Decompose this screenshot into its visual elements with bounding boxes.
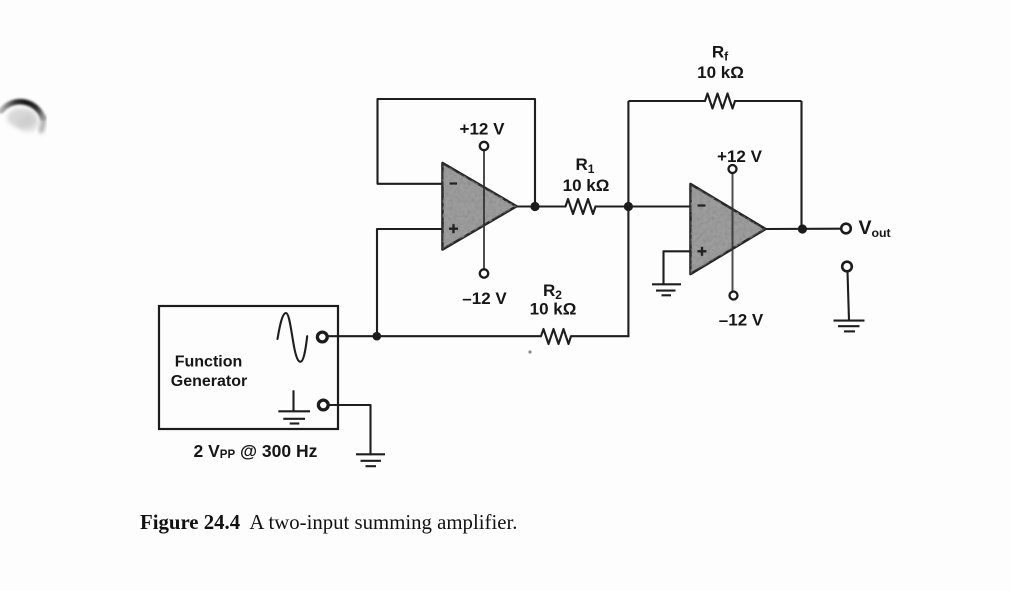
terminal +12 V (U1) (480, 142, 488, 150)
ground (below Vout) (834, 321, 865, 332)
svg-text:Rf: Rf (712, 43, 729, 64)
wire (U1 power rail vertical) (483, 151, 485, 269)
function generator label (171, 354, 247, 391)
node (junction at function generator output) (373, 332, 382, 341)
terminal (function generator ground) (318, 400, 328, 410)
wire (junction up to op-amp U1 + input) (377, 229, 443, 336)
wire (terminal to ground) (848, 272, 850, 321)
terminal Vout (841, 224, 851, 234)
terminal -12 V (U1) (480, 269, 488, 277)
svg-text:+12 V: +12 V (717, 147, 763, 166)
svg-text:R1: R1 (576, 155, 595, 176)
function generator box (159, 306, 338, 429)
pin + (U1 non-inverting input) (449, 224, 458, 233)
resistor R1 (566, 199, 596, 214)
node (U2 output junction) (798, 224, 807, 233)
wire (function generator ground terminal to earth) (329, 405, 371, 454)
svg-text:Vout: Vout (859, 217, 891, 240)
op-amp U2 (691, 184, 766, 274)
terminal +12 V (U2) (729, 165, 737, 173)
ground (inside function generator) (278, 390, 310, 423)
wire (U2 output to Vout terminal) (766, 228, 842, 230)
node (U1 output junction) (530, 202, 539, 211)
svg-text:10 kΩ: 10 kΩ (563, 176, 610, 195)
wire (Rf feedback: summing node to U2 output) (628, 101, 801, 229)
wire (summing node vertical: Rf wire down to R2 wire) (627, 101, 629, 336)
svg-text:10 kΩ: 10 kΩ (697, 63, 744, 82)
pin - (U1 inverting input) (450, 182, 458, 184)
op-amp U1 (443, 163, 517, 250)
wire (U1 output to R1) (517, 205, 566, 207)
svg-text:Generator: Generator (171, 373, 247, 390)
svg-text:Figure 24.4 A two-input summi: Figure 24.4 A two-input summing amplifie… (140, 511, 517, 534)
svg-text:+12 V: +12 V (460, 120, 506, 139)
node (summing junction) (624, 202, 633, 211)
scan artifact crescent (1, 102, 43, 132)
svg-text:–12 V: –12 V (719, 311, 764, 330)
ground (function generator external) (356, 454, 385, 466)
svg-text:Function: Function (175, 354, 243, 371)
sine wave symbol (278, 313, 308, 362)
wire (R1 to summing node to op-amp U2 - input) (596, 205, 692, 207)
wire (U2 + input to ground) (664, 251, 691, 284)
svg-text:–12 V: –12 V (462, 289, 507, 308)
wire (signal output to summing node, with R2 in series) (327, 335, 630, 337)
terminal (load ground below Vout) (842, 262, 852, 272)
wire (U1 feedback loop: output to - input) (378, 99, 536, 206)
svg-text:2 VPP @ 300 Hz: 2 VPP @ 300 Hz (194, 441, 318, 461)
terminal -12 V (U2) (730, 292, 738, 300)
resistor Rf (705, 94, 735, 109)
terminal (function generator signal output) (317, 332, 327, 342)
pin + (U2 non-inverting input) (698, 247, 707, 256)
ground (U2 + input) (652, 284, 681, 295)
resistor R2 (541, 329, 571, 344)
wire (U2 power rail vertical) (732, 173, 734, 292)
speck artifact (528, 350, 531, 353)
pin - (U2 inverting input) (698, 204, 706, 206)
svg-text:10 kΩ: 10 kΩ (530, 300, 577, 319)
